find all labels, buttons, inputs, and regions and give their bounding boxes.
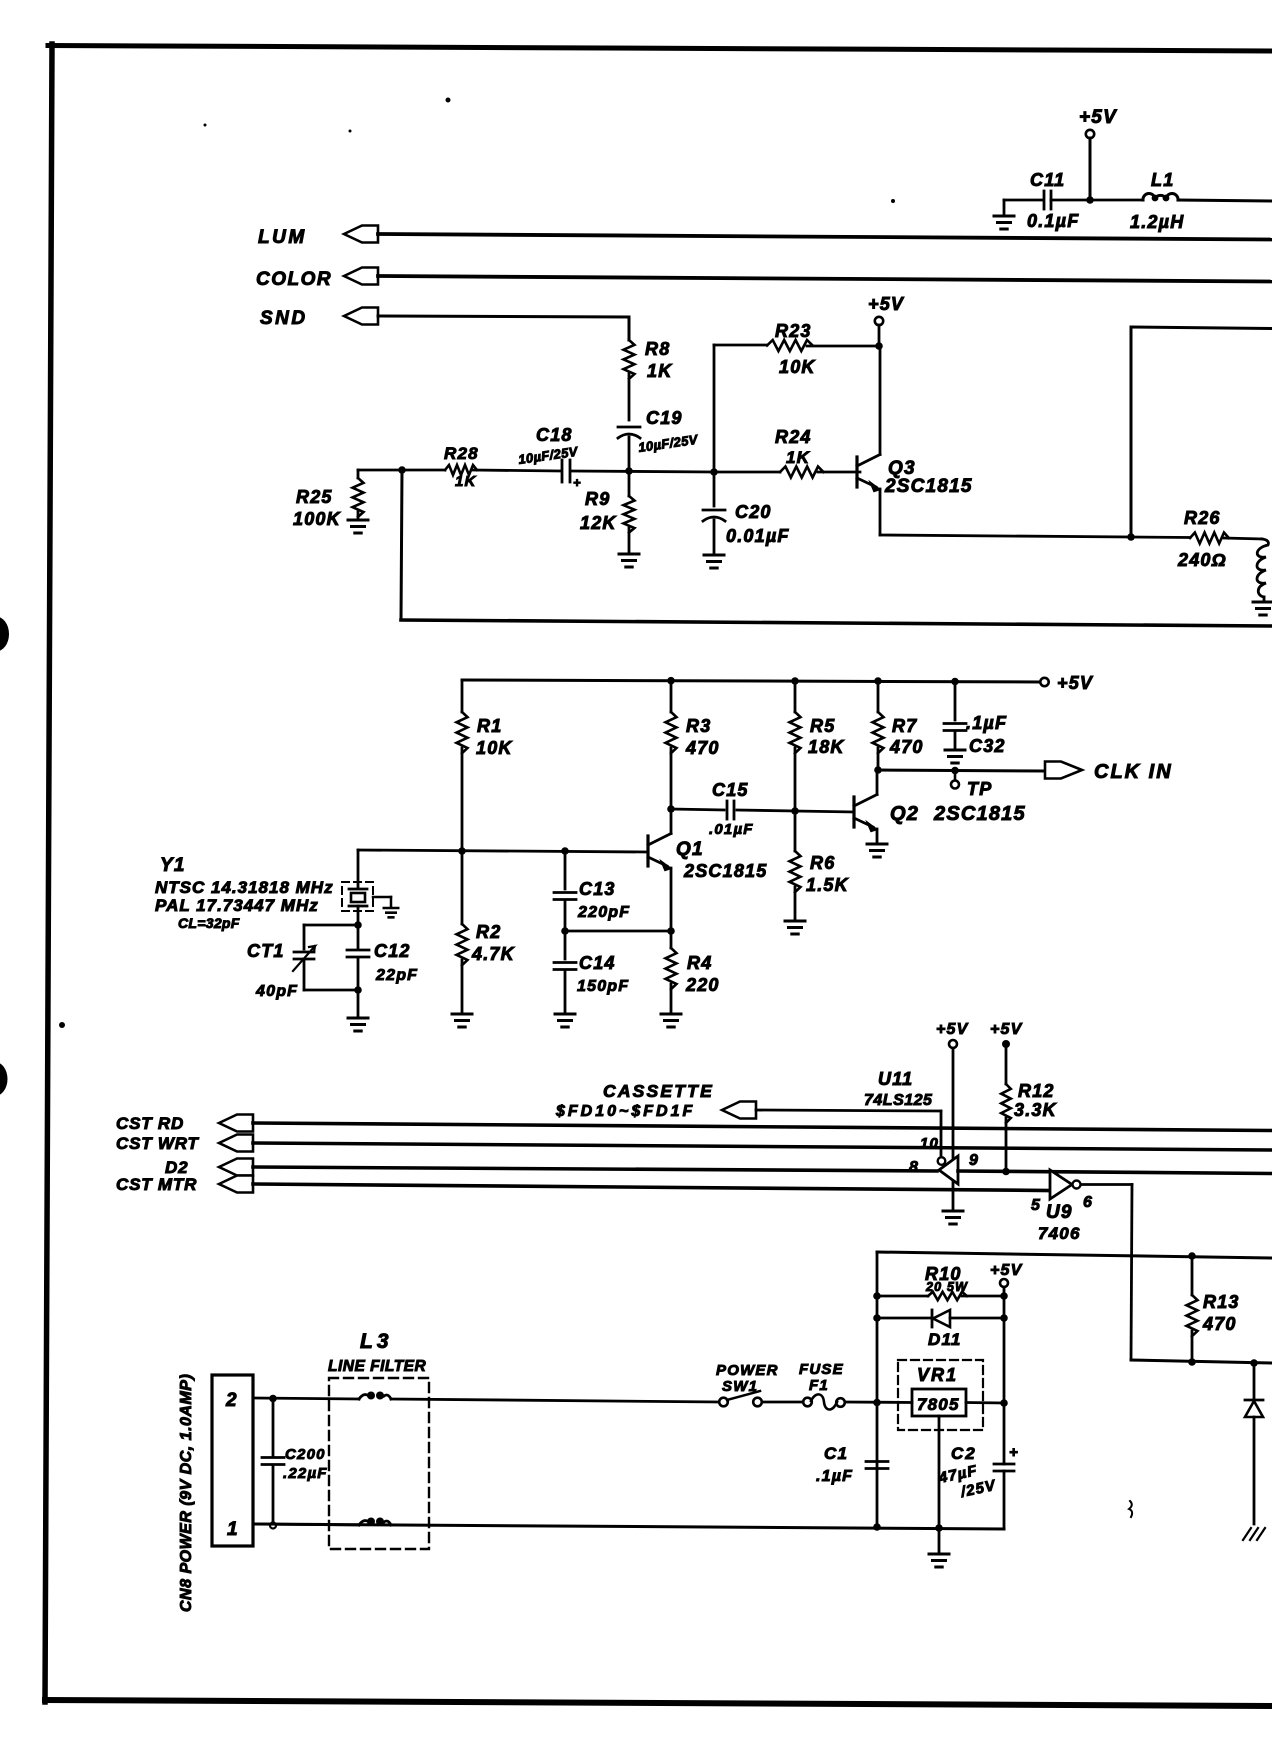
- svg-text:7406: 7406: [1038, 1224, 1081, 1243]
- svg-text:R23: R23: [775, 321, 812, 341]
- wire: [253, 1524, 359, 1525]
- capacitor C14 150pF: [554, 931, 629, 1012]
- svg-text:R2: R2: [476, 922, 501, 942]
- resistor R25 100K: [293, 470, 364, 529]
- inverter U9 7406: [1031, 1170, 1093, 1243]
- wire: [807, 345, 879, 348]
- wire: [628, 437, 631, 471]
- svg-text:1.5K: 1.5K: [806, 875, 850, 895]
- wire: [714, 344, 767, 347]
- svg-text:4.7K: 4.7K: [471, 944, 516, 964]
- wire bottom rail: [254, 1524, 1004, 1529]
- resistor R4 220: [666, 931, 720, 1012]
- resistor R26 240ohm: [1131, 508, 1262, 570]
- wire: [879, 489, 882, 535]
- capacitor C15 .01uF: [671, 780, 795, 838]
- ground: [348, 1017, 368, 1020]
- node: [873, 1314, 881, 1322]
- svg-text:470: 470: [1202, 1314, 1237, 1334]
- svg-text:L3: L3: [360, 1330, 393, 1353]
- svg-text:TP: TP: [967, 779, 992, 799]
- svg-text:0.1µF: 0.1µF: [1027, 211, 1079, 231]
- resistor R6 1.5K: [790, 811, 850, 919]
- node: [935, 1524, 943, 1532]
- svg-text:CST RD: CST RD: [116, 1114, 184, 1133]
- port SND: [260, 308, 378, 330]
- svg-text:CST MTR: CST MTR: [116, 1175, 197, 1194]
- svg-text:C11: C11: [1030, 170, 1065, 190]
- wire: [756, 1110, 941, 1111]
- svg-text:POWER: POWER: [716, 1362, 779, 1379]
- svg-text:CST WRT: CST WRT: [116, 1134, 200, 1153]
- ground: [938, 1528, 941, 1552]
- node: [269, 1395, 277, 1403]
- svg-text:R24: R24: [775, 427, 812, 447]
- svg-text:CT1: CT1: [247, 941, 285, 961]
- svg-text:Y1: Y1: [160, 855, 186, 876]
- svg-text:R8: R8: [645, 339, 670, 359]
- svg-text:COLOR: COLOR: [256, 269, 332, 290]
- svg-text:10K: 10K: [779, 357, 816, 377]
- node: [791, 807, 799, 815]
- svg-text:.1µF: .1µF: [966, 713, 1007, 733]
- svg-text:220: 220: [685, 975, 720, 995]
- node: [710, 468, 718, 476]
- transistor Q2 2SC1815: [795, 770, 1026, 842]
- node: [874, 766, 882, 774]
- svg-text:.01µF: .01µF: [709, 821, 754, 838]
- connector CN8 POWER: [178, 1374, 253, 1612]
- svg-text:2SC1815: 2SC1815: [683, 861, 767, 881]
- ground: [943, 1210, 963, 1213]
- wire: [1004, 199, 1043, 202]
- svg-text:5: 5: [1031, 1197, 1041, 1214]
- node: [791, 677, 799, 685]
- svg-text:VR1: VR1: [917, 1365, 958, 1385]
- node: [1000, 1399, 1008, 1407]
- port CST RD: [116, 1114, 253, 1133]
- node: [625, 467, 633, 475]
- port CASSETTE: [722, 1102, 756, 1119]
- svg-text:C200: C200: [285, 1446, 326, 1463]
- ground: [555, 1013, 575, 1016]
- svg-text:1K: 1K: [786, 448, 811, 467]
- wire: [1003, 1296, 1006, 1318]
- svg-text:+5V: +5V: [936, 1021, 969, 1038]
- resistor R2 4.7K: [457, 851, 516, 1012]
- wire: [253, 1167, 937, 1171]
- power terminal +5V: [936, 1021, 969, 1048]
- wire: [762, 1401, 803, 1404]
- svg-text:12K: 12K: [580, 513, 617, 533]
- capacitor C32 .1uF: [944, 681, 1007, 756]
- svg-text:+5V: +5V: [868, 294, 905, 314]
- svg-text:L1: L1: [1151, 170, 1174, 190]
- svg-text:2SC1815: 2SC1815: [884, 476, 973, 497]
- svg-text:FUSE: FUSE: [799, 1361, 844, 1378]
- svg-text:R13: R13: [1203, 1292, 1240, 1312]
- transistor Q3 2SC1815: [857, 346, 973, 497]
- node: [873, 1399, 881, 1407]
- inductor RF choke: [1257, 539, 1268, 597]
- svg-text:R9: R9: [585, 489, 610, 509]
- resistor R28 1K: [444, 444, 479, 490]
- node: [667, 927, 675, 935]
- capacitor C12 22pF: [347, 925, 418, 990]
- resistor R9 12K: [580, 471, 635, 553]
- node: [873, 1292, 881, 1300]
- svg-text:F1: F1: [809, 1377, 829, 1394]
- svg-text:10K: 10K: [476, 738, 513, 758]
- wire: [877, 1252, 1272, 1258]
- svg-text:R1: R1: [477, 716, 502, 736]
- svg-text:C19: C19: [646, 408, 683, 428]
- svg-text:.22µF: .22µF: [283, 1465, 328, 1482]
- node: [1188, 1358, 1196, 1366]
- wire: [391, 1399, 719, 1402]
- resistor R1 10K: [457, 680, 514, 851]
- diode D11: [877, 1310, 1004, 1349]
- wire: [401, 470, 402, 620]
- node: [354, 986, 362, 994]
- svg-text:3.3K: 3.3K: [1014, 1100, 1058, 1120]
- ground: [619, 553, 639, 556]
- svg-text:C18: C18: [536, 425, 573, 445]
- svg-text:R4: R4: [687, 953, 712, 973]
- svg-text:Q2: Q2: [890, 803, 919, 825]
- svg-text:C15: C15: [712, 780, 749, 800]
- svg-text:470: 470: [685, 738, 720, 758]
- wire: [378, 234, 1272, 240]
- wire to modulator box: [1130, 327, 1133, 537]
- node: [1250, 1359, 1258, 1367]
- node: [1127, 533, 1135, 541]
- svg-text:2: 2: [225, 1390, 238, 1411]
- svg-text:18K: 18K: [808, 737, 845, 757]
- wire: [845, 1401, 912, 1404]
- resistor R24 1K: [775, 427, 823, 478]
- svg-text:LUM: LUM: [258, 227, 307, 248]
- ground: [867, 843, 887, 846]
- svg-text:$FD10~$FD1F: $FD10~$FD1F: [555, 1103, 695, 1120]
- capacitor C19 10uF/25V: [618, 408, 700, 455]
- node: [398, 466, 406, 474]
- wire: [1081, 1183, 1132, 1186]
- node: [875, 342, 883, 350]
- svg-text:1: 1: [227, 1519, 239, 1540]
- svg-text:1K: 1K: [455, 473, 477, 490]
- svg-text:SW1: SW1: [722, 1378, 758, 1395]
- wire: [253, 1184, 1050, 1191]
- svg-text:C1: C1: [824, 1444, 848, 1463]
- svg-text:R3: R3: [686, 716, 711, 736]
- resistor R23 10K: [767, 321, 816, 377]
- svg-text:U9: U9: [1046, 1202, 1073, 1223]
- ground: [348, 519, 368, 522]
- capacitor C20 0.01uF: [703, 472, 790, 554]
- node: [458, 847, 466, 855]
- svg-text:D11: D11: [928, 1330, 962, 1349]
- wire: [1178, 200, 1272, 201]
- svg-text:LINE FILTER: LINE FILTER: [328, 1358, 427, 1375]
- wire: [713, 345, 716, 472]
- testpoint TP: [951, 770, 992, 799]
- wire: [358, 469, 445, 472]
- svg-text:C12: C12: [374, 941, 411, 961]
- port LUM: [258, 226, 378, 249]
- svg-text:NTSC 14.31818 MHz: NTSC 14.31818 MHz: [155, 878, 334, 897]
- node: [1188, 1252, 1196, 1260]
- wire: [253, 1398, 359, 1399]
- inductor L3 line filter: [328, 1330, 429, 1549]
- port CLK IN: [1045, 761, 1173, 783]
- power terminal +5V: [868, 294, 905, 344]
- svg-text:6: 6: [1083, 1194, 1093, 1211]
- power terminal +5V: [990, 1021, 1023, 1048]
- resistor R5 18K: [790, 681, 846, 811]
- wire: [818, 471, 860, 474]
- crystal Y1: [155, 850, 398, 931]
- node: [951, 678, 959, 686]
- wire: [878, 770, 1043, 771]
- node: [667, 805, 675, 813]
- wire: [565, 930, 671, 933]
- wire: [473, 470, 560, 471]
- svg-text:1.2µH: 1.2µH: [1130, 212, 1184, 232]
- wire: [253, 1143, 1272, 1150]
- wire: [714, 471, 780, 474]
- wire: [958, 1171, 1272, 1174]
- svg-text:CN8 POWER (9V DC, 1.0AMP): CN8 POWER (9V DC, 1.0AMP): [178, 1374, 195, 1612]
- transistor Q1 2SC1815: [648, 809, 767, 931]
- svg-text:U11: U11: [878, 1069, 913, 1089]
- svg-text:9: 9: [969, 1152, 979, 1169]
- capacitor C1 .1uF: [816, 1444, 888, 1485]
- svg-text:R28: R28: [444, 444, 479, 463]
- node: [667, 677, 675, 685]
- capacitor C11 0.1uF: [1027, 170, 1079, 231]
- trimmer capacitor CT1 40pF: [247, 925, 358, 1000]
- node: [354, 921, 362, 929]
- svg-text:C14: C14: [579, 953, 616, 973]
- port CST WRT: [116, 1134, 253, 1153]
- node: [561, 927, 569, 935]
- wire: [1131, 1360, 1272, 1363]
- port D2: [165, 1158, 253, 1177]
- svg-text:2SC1815: 2SC1815: [933, 803, 1026, 825]
- svg-text:.1µF: .1µF: [816, 1468, 853, 1485]
- wire: [358, 850, 648, 852]
- svg-text:7805: 7805: [917, 1395, 960, 1414]
- node: [1000, 1292, 1008, 1300]
- resistor R8 1K: [624, 339, 674, 381]
- svg-text:1K: 1K: [647, 361, 673, 381]
- svg-text:+5V: +5V: [990, 1262, 1023, 1279]
- resistor R10 20ohm 5W: [877, 1264, 1004, 1300]
- svg-text:R26: R26: [1184, 508, 1221, 528]
- wire: [401, 620, 1272, 626]
- svg-text:R12: R12: [1018, 1081, 1055, 1101]
- svg-text:0.01µF: 0.01µF: [726, 526, 790, 546]
- svg-text:20 5W: 20 5W: [925, 1280, 968, 1294]
- port COLOR: [256, 268, 378, 291]
- wire: [1051, 199, 1143, 202]
- wire: [253, 1123, 1272, 1131]
- resistor R12 3.3K: [1001, 1044, 1057, 1171]
- node: [951, 767, 959, 775]
- svg-text:470: 470: [889, 737, 924, 757]
- svg-text:+: +: [573, 475, 582, 490]
- svg-text:R25: R25: [296, 487, 333, 507]
- port CST MTR: [116, 1175, 253, 1194]
- svg-text:40pF: 40pF: [255, 983, 298, 1000]
- svg-text:8: 8: [909, 1159, 919, 1176]
- capacitor C2 47uF/25V: [936, 1403, 1019, 1529]
- svg-text:Q1: Q1: [676, 839, 704, 860]
- node: [1086, 196, 1094, 204]
- ground: [452, 1013, 472, 1016]
- wire: [952, 1048, 955, 1209]
- diode D12: [1245, 1363, 1263, 1524]
- svg-text:74LS125: 74LS125: [864, 1092, 933, 1109]
- svg-text:CL=32pF: CL=32pF: [178, 915, 240, 931]
- svg-text:+5V: +5V: [1079, 107, 1117, 128]
- svg-text:C2: C2: [951, 1444, 977, 1463]
- capacitor C200 .22uF: [262, 1399, 328, 1529]
- label CASSETTE $FD10-$FD1F: [555, 1081, 714, 1120]
- node: [873, 1523, 881, 1531]
- resistor R3 470: [666, 680, 720, 809]
- ground: [704, 554, 724, 557]
- buffer U11 74LS125: [864, 1069, 979, 1184]
- svg-text:+5V: +5V: [990, 1021, 1023, 1038]
- wire: [876, 1252, 879, 1528]
- ground: [661, 1013, 681, 1016]
- node: [561, 847, 569, 855]
- svg-text:C13: C13: [579, 879, 616, 899]
- capacitor C18 10uF/25V: [517, 425, 581, 490]
- svg-text:100K: 100K: [293, 509, 342, 529]
- node: [1002, 1168, 1010, 1176]
- wire: [571, 471, 714, 472]
- svg-text:R5: R5: [810, 716, 835, 736]
- node: [874, 677, 882, 685]
- svg-text:240Ω: 240Ω: [1177, 550, 1227, 570]
- svg-text:C20: C20: [735, 502, 772, 522]
- svg-text:150pF: 150pF: [577, 978, 629, 995]
- wire: [378, 276, 1272, 282]
- resistor R13 470: [1187, 1256, 1240, 1362]
- ground: [945, 749, 965, 752]
- svg-text:22pF: 22pF: [375, 967, 418, 984]
- ground: [994, 200, 1014, 229]
- svg-text:CASSETTE: CASSETTE: [603, 1081, 714, 1101]
- svg-text:PAL 17.73447 MHz: PAL 17.73447 MHz: [155, 896, 319, 915]
- svg-text:220pF: 220pF: [577, 904, 630, 921]
- ground: [1253, 601, 1272, 604]
- svg-text:+5V: +5V: [1057, 673, 1094, 693]
- wire: [378, 316, 629, 317]
- resistor R7 470: [873, 681, 924, 770]
- svg-text:+: +: [1009, 1444, 1019, 1461]
- power terminal +5V: [1079, 107, 1117, 198]
- chassis ground: [1243, 1528, 1265, 1540]
- svg-text:C32: C32: [969, 736, 1006, 756]
- wire +5V rail: [462, 680, 1040, 682]
- regulator VR1 7805: [898, 1360, 1004, 1528]
- fuse F1: [799, 1361, 845, 1410]
- svg-text:R7: R7: [892, 716, 917, 736]
- svg-text:SND: SND: [260, 308, 308, 329]
- switch SW1 POWER: [716, 1362, 779, 1406]
- svg-text:10: 10: [920, 1135, 939, 1152]
- svg-text:R6: R6: [810, 853, 835, 873]
- capacitor C13 220pF: [554, 851, 630, 931]
- wire: [357, 990, 360, 1016]
- ground: [785, 920, 805, 923]
- svg-text:CLK IN: CLK IN: [1094, 761, 1173, 783]
- wire: [628, 374, 631, 420]
- inductor L1 1.2uH: [1130, 170, 1184, 232]
- power terminal +5V: [990, 1262, 1023, 1296]
- power terminal +5V: [1040, 673, 1094, 693]
